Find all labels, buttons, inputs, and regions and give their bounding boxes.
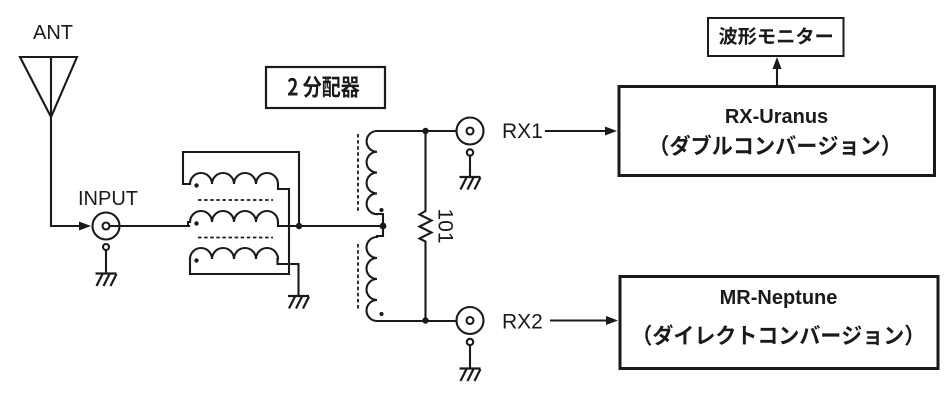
svg-text:RX1: RX1	[502, 120, 543, 143]
svg-text:RX-Uranus: RX-Uranus	[725, 106, 828, 128]
svg-text:MR-Neptune: MR-Neptune	[720, 287, 838, 309]
svg-text:ANT: ANT	[33, 22, 73, 44]
svg-text:RX2: RX2	[502, 311, 543, 334]
svg-text:101: 101	[434, 208, 457, 243]
svg-text:INPUT: INPUT	[78, 188, 138, 210]
